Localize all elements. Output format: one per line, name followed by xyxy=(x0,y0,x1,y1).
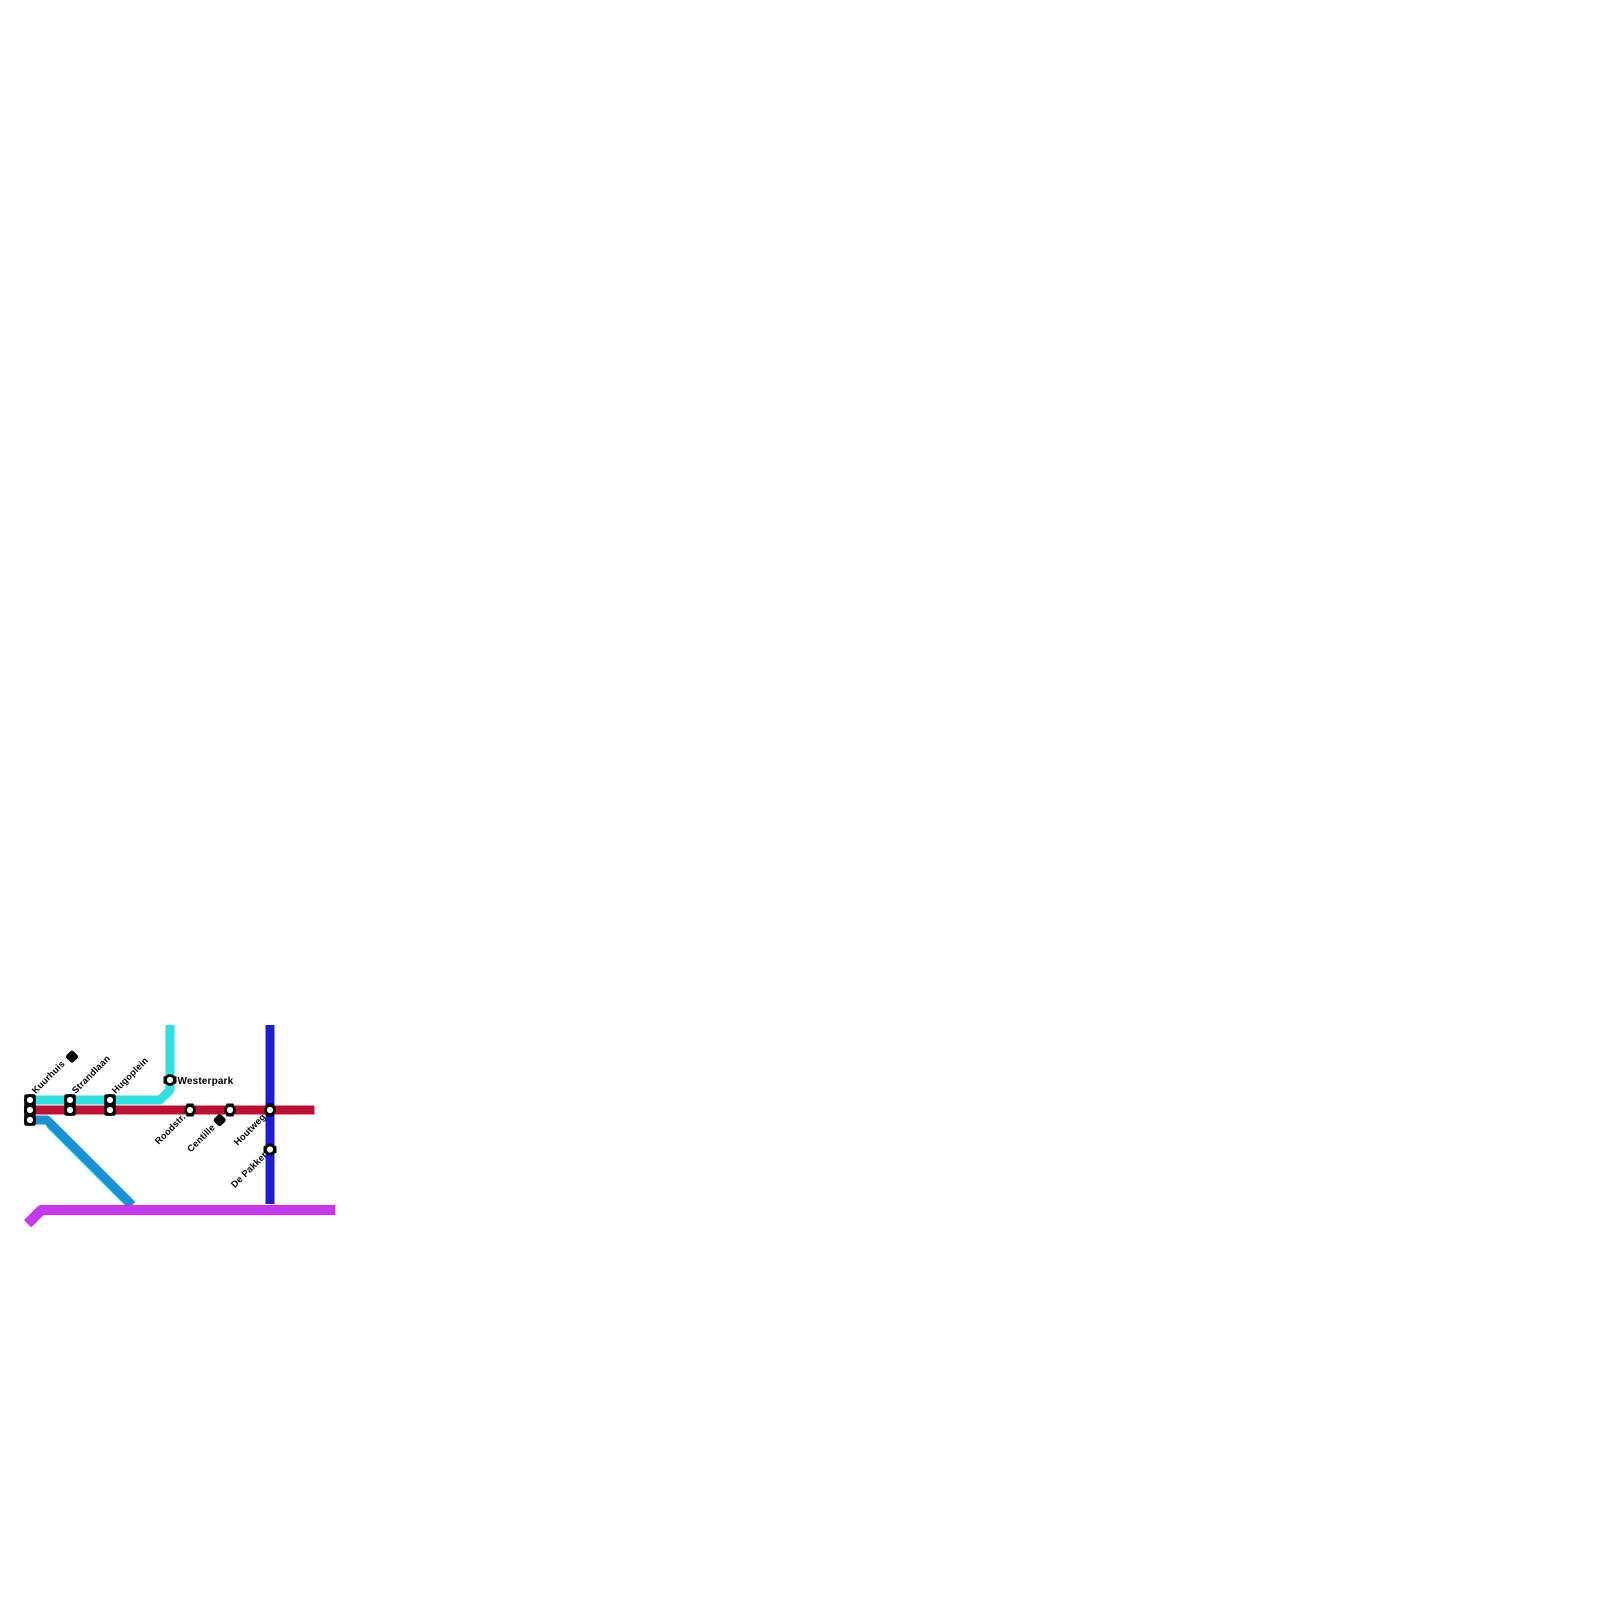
svg-text:Strandlaan: Strandlaan xyxy=(70,1053,112,1095)
svg-text:Kuurhuis: Kuurhuis xyxy=(30,1059,67,1096)
svg-text:Westerpark: Westerpark xyxy=(178,1076,234,1087)
svg-text:Roodstr.: Roodstr. xyxy=(153,1112,188,1147)
svg-text:Hugoplein: Hugoplein xyxy=(110,1055,150,1095)
svg-text:Houtweg: Houtweg xyxy=(232,1112,268,1148)
svg-text:Centille: Centille xyxy=(185,1122,217,1154)
svg-text:De Pakker: De Pakker xyxy=(229,1150,269,1190)
